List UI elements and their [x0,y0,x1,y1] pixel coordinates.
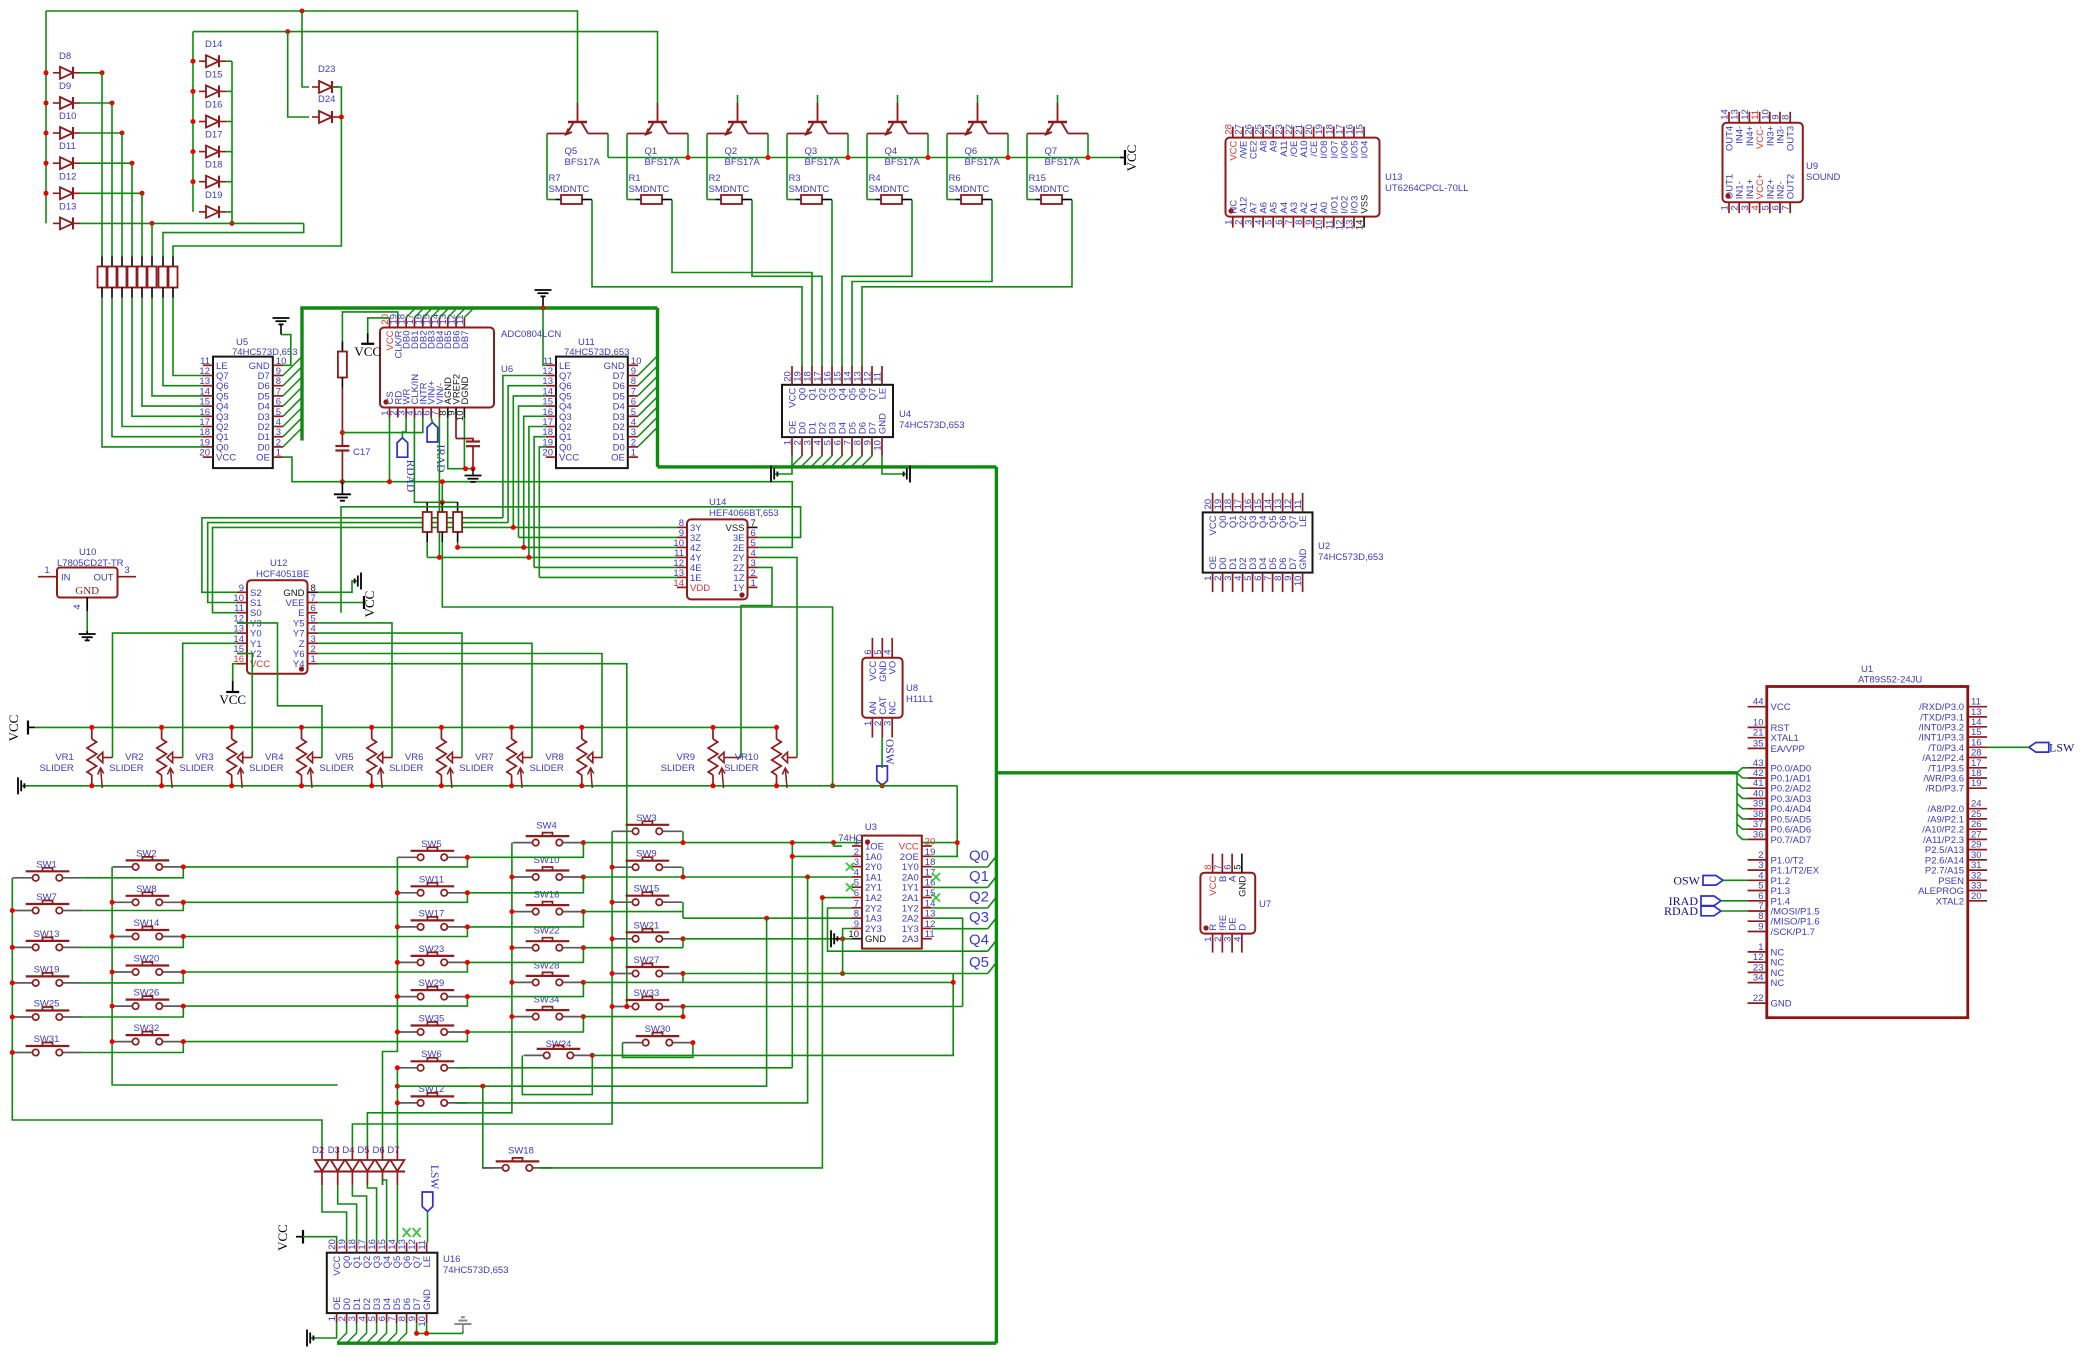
node Q5 join [511,525,516,530]
net flag IRAD [427,423,438,443]
node VR10 top [774,725,779,730]
IC U5 74HC573D,653 [213,357,273,469]
svg-text:VCC: VCC [559,453,579,464]
wire R4 left [866,185,868,200]
wire U6 DB bus entry [423,310,431,318]
node col1 rail [10,1015,15,1020]
wire cathode stub [226,60,232,62]
wire R2 to U4 pin17 [752,200,822,367]
svg-text:SLIDER: SLIDER [459,763,493,774]
svg-text:ADC0804LCN: ADC0804LCN [501,329,561,340]
svg-text:R7: R7 [549,173,561,184]
wire SW3 jog [682,831,684,842]
wire SW28 row out [583,981,953,983]
bus main vertical right [995,467,998,1343]
node VR1 bottom [89,783,94,788]
wire U3 1Y1 [932,886,988,888]
node VR8 bottom [579,783,584,788]
node row jog c4 [581,945,586,950]
wire U12 Y2 to VR3 [237,654,252,758]
VCC symbol U6 [367,333,369,344]
node SW24 right [590,1053,595,1058]
svg-text:D13: D13 [59,201,76,212]
IC U13 UT6264CPCL-70LL [1226,138,1380,217]
wire resistor to U5 [112,298,203,437]
svg-text:11: 11 [925,929,935,940]
svg-text:15: 15 [1355,124,1366,135]
wire D2 to U16 [321,1172,323,1186]
svg-text:VCC: VCC [275,1224,290,1251]
svg-text:DGND: DGND [460,376,471,404]
svg-text:D17: D17 [205,130,222,141]
wire matrix row chain [82,1042,183,1053]
wire U3 2Y3 loop Q5 [843,929,988,974]
net label Q0 [988,856,997,867]
wire SW22 row out [583,947,683,949]
svg-text:GND: GND [865,934,886,945]
IC U9 SOUND [1723,123,1803,202]
wire U12 Y5 to VR5 [318,623,393,758]
svg-text:SLIDER: SLIDER [109,763,143,774]
wire SW33 row right [683,1006,963,1008]
node 1A0 on SW3 row [790,840,795,845]
svg-text:OUT3: OUT3 [1786,126,1797,151]
wire pull top to OE net [441,482,443,503]
wire U3 GND [841,938,852,940]
svg-text:VR10: VR10 [735,752,759,763]
wire R7 right down [588,199,593,201]
resistor array R1 [101,257,103,267]
svg-text:VCC: VCC [216,453,236,464]
node row jog c4 [581,980,586,985]
node VR8 top [579,725,584,730]
node col4 rail [509,945,514,950]
net label Q1 [988,876,997,887]
wire VR9 wiper [734,757,742,759]
IC U4 74HC573D,653 [782,385,893,437]
resistor array R7 [162,257,164,267]
svg-text:BFS17A: BFS17A [1045,157,1081,168]
svg-text:SMDNTC: SMDNTC [949,184,990,195]
net flag RDAD [397,438,408,458]
ground below U10 [79,634,96,640]
wire resistor to U5 [122,298,203,427]
wire cathode stub [226,121,232,123]
node pull3 join [455,545,460,550]
svg-text:SOUND: SOUND [1806,172,1840,183]
svg-text:SLIDER: SLIDER [661,763,695,774]
wire D13 cathode row [80,222,304,224]
wire VIN- down [438,418,440,558]
svg-text:VR1: VR1 [55,752,73,763]
wire U4 D bus entry [851,456,862,467]
wire SW9 jog [682,867,684,877]
wire D3 to U16 [337,1172,339,1186]
wire SW27 jog [682,974,684,983]
wire SW24 row [592,974,953,1056]
node rail-D8 [44,70,49,75]
wire U11 D-pin bus entry [638,386,658,406]
wire sw col4 rail [367,843,512,1147]
node col5 rail [610,971,615,976]
svg-text:VR2: VR2 [125,752,143,763]
wire U11 D-pin bus entry [638,407,658,427]
wire SW30 loop [623,1043,693,1058]
svg-text:Q0: Q0 [969,848,989,865]
node VR4 bottom [299,783,304,788]
svg-text:U2: U2 [1318,541,1330,552]
svg-text:U1: U1 [1861,664,1873,675]
svg-text:LE: LE [878,388,889,400]
IC U3 74HC244D,653 [862,836,922,949]
node collector rail [766,155,771,160]
wire R6 right down [988,199,993,201]
wire U11 D-pin bus entry [638,366,658,386]
svg-text:1: 1 [276,448,281,459]
wire VR4 wiper [321,757,323,759]
svg-text:Q3: Q3 [805,146,818,157]
node rail-SW3 row [955,840,960,845]
svg-text:BFS17A: BFS17A [885,157,921,168]
node VR5 top [369,725,374,730]
node U3 gnd cross [840,936,845,941]
wire SW33 jog [682,1007,684,1017]
wire U4 D bus entry [811,456,822,467]
wire Q7 base stub [1057,95,1059,103]
svg-text:BFS17A: BFS17A [805,157,841,168]
svg-text:14: 14 [673,578,684,589]
svg-text:SLIDER: SLIDER [319,763,353,774]
net label Q3 [988,918,997,929]
wire U11 D-pin bus entry [638,397,658,417]
svg-text:44: 44 [1753,697,1764,708]
wire U11 Q nested [534,437,546,568]
net label Q5 [988,963,997,974]
node top rail junction [300,9,305,14]
svg-text:U7: U7 [1259,899,1271,910]
wire U11 Q nested [529,427,546,558]
wire VR7 wiper [531,757,533,759]
node collector rail [1006,155,1011,160]
node pull top [440,500,445,505]
svg-text:SMDNTC: SMDNTC [1029,184,1070,195]
svg-text:IN: IN [61,573,71,584]
svg-text:22: 22 [1753,993,1764,1004]
wire U5 D-pin bus entry [283,377,302,396]
IC U7 [1200,873,1255,934]
wire U4 OE to ground [775,456,792,474]
svg-text:DB7: DB7 [460,331,471,349]
wire sw col1 rail [12,878,322,1147]
node collector rail [686,155,691,160]
svg-text:VR3: VR3 [195,752,213,763]
node col2 rail [110,900,115,905]
wire U4 D bus entry [831,456,842,467]
wire INTR to RC node [342,418,422,433]
node OSW on rail [880,783,885,788]
IC U2 74HC573D,653 [1203,512,1313,572]
node collector rail [926,155,931,160]
wire U5 D-pin bus entry [283,428,302,447]
node col4 rail [509,1014,514,1019]
wire CLKIN down [414,418,427,503]
svg-text:HCF4051BE: HCF4051BE [256,569,309,580]
IC U14 HEF4066BT,653 [687,519,748,599]
svg-text:SLIDER: SLIDER [249,763,283,774]
svg-text:D10: D10 [59,111,76,122]
svg-text:VCC: VCC [250,659,270,670]
svg-text:VSS: VSS [1360,195,1371,214]
svg-text:D: D [1237,924,1248,931]
svg-text:C17: C17 [353,447,370,458]
svg-text:VR7: VR7 [475,752,493,763]
svg-text:U16: U16 [443,1254,460,1265]
node SW21 jog [681,936,686,941]
wire Q2 collector to VCC rail [767,134,769,158]
node SW18 feed [480,1084,485,1089]
wire SW6-SW12 rail [396,1068,398,1103]
wire bundle 4Y line [427,556,677,558]
node VR9 top [711,725,716,730]
wire U5 D-pin bus entry [283,397,302,416]
node U16 pin9 [414,1331,419,1336]
node SW30 right [690,1040,695,1045]
wire U12 VCC pin16 [233,664,237,681]
wire R7 to U4 pin19 [592,200,802,367]
wire cathode stub [226,151,232,153]
svg-text:34: 34 [1753,973,1764,984]
node col2 rail [110,1039,115,1044]
svg-text:VCC: VCC [362,591,377,618]
svg-text:SLIDER: SLIDER [389,763,423,774]
node anode rail [191,149,196,154]
wire resistor to U5 [173,298,203,376]
IC U6 ADC0804LCN [380,328,494,408]
node VR2 bottom [159,783,164,788]
ground above U11 [535,290,552,296]
wire sw col3 rail [383,857,398,1147]
ground U16 left [307,1330,313,1347]
ground above U5 [273,318,290,324]
svg-text:OE: OE [256,453,270,464]
resistor array R8 [172,257,174,267]
node U16 pin10 [424,1331,429,1336]
wire U12 Y6 to VR8 [318,654,603,758]
node VR3 bottom [229,783,234,788]
resistor array R5 [141,257,143,267]
node col4 rail [509,980,514,985]
svg-text:BFS17A: BFS17A [565,157,601,168]
svg-text:9: 9 [1758,922,1763,933]
wire bundle S0-Q5-3Y [213,527,678,612]
node Q3 join [521,545,526,550]
wire U11 Q nested [513,396,546,528]
svg-text:U13: U13 [1385,172,1402,183]
wire R1 left [626,185,628,200]
wire R15 left [1026,185,1028,200]
wire VCC collector rail [608,157,1120,159]
node col1 rail [10,908,15,913]
node U3 1A2 [820,895,825,900]
wire U4 D bus entry [821,456,832,467]
wire U11 Q nested [519,406,546,537]
wire cathode stub [226,90,232,92]
node cathode rail joins D13 row [230,221,235,226]
wire SW27 row to Q5 loop [683,973,843,975]
net flag LSW at U1 [2029,743,2049,753]
wire riser [111,103,113,257]
wire U11 D-pin bus entry [638,417,658,437]
node SW24-SW28 cross [951,980,956,985]
svg-text:11: 11 [1293,500,1304,510]
svg-text:D14: D14 [205,39,222,50]
wire U3 OE feed [834,843,843,847]
wire U11 Q nested [508,386,546,523]
wire D14-D19 cathode rail [231,61,233,223]
wire U4 D bus entry [791,456,802,467]
node row jog c4 [581,875,586,880]
node collector rail [846,155,851,160]
wire R3 left [786,185,788,200]
wire 1A3 row [683,917,852,919]
svg-text:NC: NC [1771,978,1785,989]
wire U11 Q nested [524,416,546,547]
node anode rail [191,89,196,94]
svg-text:GND: GND [1771,999,1792,1010]
wire Q2 emitter down [706,134,708,185]
svg-text:1Y: 1Y [733,583,745,594]
wire U12 GND [318,581,358,592]
wire bundle S2-Q7 [202,518,503,593]
svg-text:XTAL2: XTAL2 [1936,896,1964,907]
node VR10 bottom [774,783,779,788]
wire VR6 wiper [461,757,463,759]
svg-text:D16: D16 [205,100,222,111]
node U11 gnd on bus [541,306,546,311]
node row jog c3 [465,994,470,999]
node SW27 jog [681,971,686,976]
node riser [130,161,135,166]
node SW6 rail mid [395,1084,400,1089]
node col5 rail [610,865,615,870]
wire U4 D bus entry [861,456,872,467]
wire U1 P1.4 IRAD [1721,900,1748,902]
wire D24 anode feed [288,32,309,117]
wire D23 anode feed [302,11,309,87]
node SW33 jog2 [681,1014,686,1019]
svg-text:BFS17A: BFS17A [725,157,761,168]
svg-text:74HC573D,653: 74HC573D,653 [1318,552,1384,563]
wire VR5 wiper [391,757,393,759]
svg-text:/RD/P3.7: /RD/P3.7 [1925,784,1964,795]
wire U1 MOSI RDAD [1721,910,1748,912]
svg-text:SMDNTC: SMDNTC [709,184,750,195]
svg-text:SMDNTC: SMDNTC [629,184,670,195]
svg-text:XTAL1: XTAL1 [1771,733,1799,744]
wire U5 D-pin bus entry [283,418,302,437]
wire Q4 base stub [897,95,899,103]
ground U3 gnd [831,930,837,947]
svg-text:OE: OE [611,453,625,464]
no-connect U16 pin12 [413,1228,421,1237]
svg-text:1: 1 [751,578,756,589]
wire U16 VCC [303,1237,337,1243]
node col2 rail [110,970,115,975]
svg-text:U9: U9 [1806,161,1818,172]
wire diode cathode row [80,132,122,134]
svg-text:D9: D9 [59,81,71,92]
svg-text:VR4: VR4 [265,752,283,763]
wire R2 left [706,185,708,200]
node rail-D11 [44,161,49,166]
svg-text:GND: GND [422,1289,433,1310]
svg-text:U12: U12 [270,558,287,569]
node row jog c2 [181,864,186,869]
wire matrix row chain [82,972,183,983]
svg-text:Q1: Q1 [645,146,658,157]
svg-text:OUT2: OUT2 [1786,174,1797,199]
svg-text:74HC573D,653: 74HC573D,653 [899,420,965,431]
wire SW21 jog [682,939,684,948]
wire SW16 row out [583,911,683,913]
wire R1 right down [668,199,673,201]
wire net top rail to Q5 base [46,11,578,103]
wire D7 to U16 [396,1172,398,1186]
svg-text:14: 14 [1355,220,1366,231]
node rail-D10 [44,131,49,136]
svg-text:3: 3 [124,565,129,576]
wire SW34 row out [583,1016,683,1018]
svg-text:VCC: VCC [6,715,21,742]
svg-text:U4: U4 [899,409,911,420]
wire U14 2Z to VR9 [741,567,772,757]
svg-text:R1: R1 [629,173,641,184]
wire R6 to U4 pin14 [852,200,992,367]
svg-text:11: 11 [873,372,884,382]
wire U6 CS down [389,418,391,482]
wire bundle Q1-4E [534,566,677,568]
svg-text:10: 10 [873,440,884,451]
svg-text:GND: GND [1237,876,1248,897]
no-connect U3 pin3 [846,863,854,871]
resistor array R6 [151,257,153,267]
wire U12 Y0 to VR1 [113,633,238,757]
svg-text:4: 4 [72,604,83,609]
wire U11 D-pin bus entry [638,356,658,376]
node riser [110,101,115,106]
wire sw col5 rail [352,831,612,1147]
wire R15 right down [1068,199,1073,201]
svg-text:HEF4066BT,653: HEF4066BT,653 [709,508,779,519]
node VR3 top [229,725,234,730]
wire U11 Q nested [539,447,546,578]
node anode rail [191,179,196,184]
wire VIN+ to IRAD [431,418,432,423]
wire SW4 row out [583,842,957,844]
wire R-clk to C17 [341,388,343,447]
node col4 rail [509,909,514,914]
svg-text:D15: D15 [205,69,222,80]
net flag LSW at U16 [422,1192,433,1212]
wire to gray ground [462,1331,464,1333]
svg-text:2A3: 2A3 [902,934,919,945]
IC U11 74HC573D,653 [556,357,628,469]
wire U3 1Y3 [932,928,988,930]
svg-text:Q7: Q7 [1045,146,1058,157]
wire matrix row chain [82,1006,183,1017]
wire U6 DB bus entry [431,310,439,318]
node row jog c2 [181,1004,186,1009]
